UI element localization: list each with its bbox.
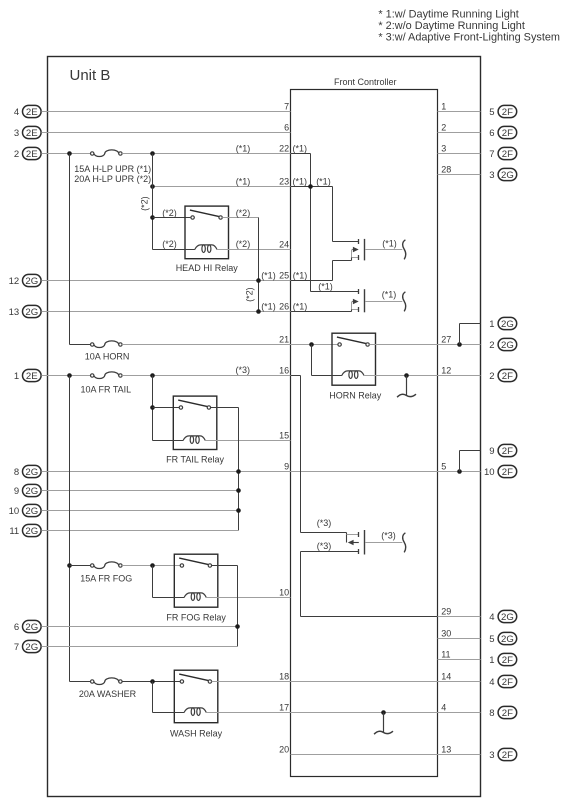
Front Controller title: [334, 77, 397, 87]
pin 10 label: [279, 588, 289, 598]
svg-text:2F: 2F: [502, 446, 513, 457]
svg-text:27: 27: [441, 335, 451, 345]
label (*3) pin16: [236, 365, 251, 375]
svg-text:5: 5: [441, 462, 446, 472]
wire pin23 from junction: [153, 186, 291, 188]
pin 22 label: [279, 144, 289, 154]
wire FR TAIL switch output stub: [211, 407, 239, 409]
wire vertical pin23 to mosfet1 drain: [332, 187, 334, 242]
relay HEAD HI coil: [195, 245, 217, 253]
Front Controller box: [291, 90, 438, 777]
svg-text:2G: 2G: [25, 506, 38, 517]
svg-text:22: 22: [279, 144, 289, 154]
svg-text:10A HORN: 10A HORN: [85, 352, 130, 362]
squiggle harness mosfet2: [403, 292, 406, 312]
svg-text:(*3): (*3): [317, 518, 332, 528]
wire vertical WASH coil feed: [152, 682, 154, 713]
wire 7 2G to FR FOG out: [41, 646, 238, 648]
svg-text:* 3:w/ Adaptive Front-Lighting: * 3:w/ Adaptive Front-Lighting System: [378, 32, 560, 44]
transistor Q1 mosfet (*1): [352, 239, 365, 261]
wire 11 2G to FR TAIL out: [41, 530, 239, 532]
wire HEAD HI switch input stub: [153, 217, 191, 219]
wire vertical FR TAIL out down: [238, 408, 240, 531]
connector 4 2E: [14, 105, 41, 118]
svg-text:5: 5: [489, 634, 494, 645]
connector 9 2F: [489, 444, 516, 457]
pin 16 label: [279, 366, 289, 376]
pin 15 label: [279, 431, 289, 441]
wire vertical HEAD HI out down: [258, 218, 260, 312]
pin 20 label: [279, 745, 289, 755]
svg-text:1: 1: [489, 655, 494, 666]
node pin23 branch junction: [150, 184, 155, 189]
pin 27 label: [441, 335, 451, 345]
connector 12 2G: [9, 274, 41, 287]
wire mosfet2 output: [365, 301, 402, 303]
connector 6 2G: [14, 620, 41, 633]
svg-text:6: 6: [14, 622, 19, 633]
label (*1) mosfet2 out: [382, 290, 397, 300]
svg-text:9: 9: [284, 462, 289, 472]
wire HEAD HI coil to pin 24: [217, 249, 290, 251]
svg-text:Front Controller: Front Controller: [334, 77, 397, 87]
svg-text:(*2): (*2): [236, 239, 251, 249]
svg-text:9: 9: [489, 446, 494, 457]
relay HORN label: [329, 390, 382, 400]
fuse 10A HORN: [91, 341, 123, 348]
wire pin1 to 5 2F: [438, 111, 481, 113]
wire WASHER corner stub: [70, 681, 91, 683]
connector 10 2G: [9, 504, 41, 517]
squiggle harness mosfet1: [403, 240, 406, 260]
svg-text:1: 1: [489, 319, 494, 330]
wire HORN coil input stub: [312, 375, 342, 377]
svg-text:5: 5: [489, 107, 494, 118]
wire pin28 to 3 2G: [438, 174, 481, 176]
node 1 2E feed junction: [67, 373, 72, 378]
squiggle harness mosfet3: [403, 533, 406, 553]
wire pin11 to 1 2F: [438, 659, 481, 661]
wire vertical HORN coil feed: [311, 345, 313, 376]
wire mosfet3 output: [365, 542, 402, 544]
svg-text:2G: 2G: [501, 319, 514, 330]
connector 1 2F: [489, 653, 516, 666]
node FR TAIL out tie 9 2G: [236, 488, 241, 493]
wire vertical H-LP feed to HEAD HI: [152, 154, 154, 250]
svg-text:2G: 2G: [501, 340, 514, 351]
wire 12 2G to pin 25: [41, 280, 290, 282]
wire vertical FR FOG coil feed: [152, 566, 154, 598]
label (*1) pin23 inside A: [293, 177, 308, 187]
svg-text:30: 30: [441, 629, 451, 639]
svg-text:12: 12: [441, 366, 451, 376]
connector 2 2G: [489, 338, 516, 351]
label (*2) HEAD HI upper-left: [162, 208, 177, 218]
wire FR FOG coil input stub: [153, 597, 185, 599]
svg-text:(*1): (*1): [261, 302, 276, 312]
pin 3 label: [441, 144, 446, 154]
connector 10 2F: [484, 465, 517, 478]
svg-text:2G: 2G: [25, 622, 38, 633]
wire vertical 1 2E feed down: [69, 376, 71, 682]
svg-text:2: 2: [489, 371, 494, 382]
relay HEAD HI box: [185, 206, 229, 259]
svg-text:(*3): (*3): [381, 531, 396, 541]
wire mosfet3 top lead: [301, 532, 347, 534]
svg-text:HEAD HI Relay: HEAD HI Relay: [176, 263, 239, 273]
label (*3) mosfet3 bottom: [317, 541, 332, 551]
svg-text:14: 14: [441, 672, 451, 682]
wire FR TAIL coil input stub: [153, 440, 184, 442]
relay FR TAIL box: [173, 396, 217, 449]
svg-text:9: 9: [14, 486, 19, 497]
pin 1 label: [441, 102, 446, 112]
label (*3) mosfet3 out: [381, 531, 396, 541]
svg-text:20A WASHER: 20A WASHER: [79, 689, 137, 699]
svg-text:8: 8: [489, 708, 494, 719]
svg-text:3: 3: [441, 144, 446, 154]
node FR TAIL out tie 10 2G: [236, 508, 241, 513]
svg-text:15: 15: [279, 431, 289, 441]
pin 9 label: [284, 462, 289, 472]
svg-text:(*1): (*1): [293, 271, 308, 281]
connector 8 2G: [14, 465, 41, 478]
pin 23 label: [279, 177, 289, 187]
relay FR FOG label: [166, 613, 226, 623]
ground HORN relay: [397, 376, 416, 398]
wire WASH coil through pin17 pin4 to 8 2F: [206, 712, 480, 714]
wire mosfet2 gate lead: [311, 289, 359, 294]
wire 6 2G to FR FOG out: [41, 626, 237, 628]
wire fuse to pin 22: [122, 153, 290, 155]
svg-text:(*1): (*1): [316, 177, 331, 187]
svg-text:2F: 2F: [502, 750, 513, 761]
pin 5 label: [441, 462, 446, 472]
label (*1) pin25 outside: [261, 271, 276, 281]
transistor Q3 mosfet (*3): [347, 530, 365, 555]
pin 29 label: [441, 606, 451, 616]
wire pin3 to 7 2F: [438, 153, 481, 155]
wire mosfet1 drain lead: [333, 239, 359, 244]
svg-text:(*3): (*3): [317, 541, 332, 551]
svg-text:2E: 2E: [26, 107, 38, 118]
wire pin2 to 6 2F: [438, 132, 481, 134]
wire bracket to 9 2F: [460, 451, 481, 472]
connector 11 2G: [9, 524, 41, 537]
svg-text:28: 28: [441, 165, 451, 175]
wire 8 2G through pin9 pin5 to 10 2F: [41, 471, 480, 473]
svg-text:2G: 2G: [501, 170, 514, 181]
svg-text:2G: 2G: [501, 612, 514, 623]
node HEAD HI switch branch: [150, 215, 155, 220]
node 10 2F bracket tie: [457, 469, 462, 474]
svg-text:(*1): (*1): [293, 177, 308, 187]
relay FR FOG box: [174, 554, 218, 607]
wire pin25 inside stub: [291, 280, 333, 282]
wire mosfet1 output: [365, 249, 402, 251]
connector 4 2G: [489, 610, 516, 623]
svg-text:2G: 2G: [25, 276, 38, 287]
wire pin29 to 4 2G: [438, 616, 481, 618]
svg-text:2F: 2F: [502, 107, 513, 118]
svg-text:2G: 2G: [25, 526, 38, 537]
wire vertical 2E feed to HORN fuse: [69, 154, 71, 345]
svg-text:23: 23: [279, 177, 289, 187]
svg-text:29: 29: [441, 606, 451, 616]
svg-text:4: 4: [441, 703, 446, 713]
svg-text:6: 6: [284, 123, 289, 133]
svg-text:7: 7: [14, 642, 19, 653]
svg-text:(*1): (*1): [293, 144, 308, 154]
relay HORN switch: [337, 337, 369, 346]
svg-text:(*2): (*2): [162, 239, 177, 249]
connector 3 2G: [489, 168, 516, 181]
svg-text:3: 3: [489, 170, 494, 181]
svg-text:(*2): (*2): [162, 208, 177, 218]
label (*1) pin26 inside: [293, 302, 308, 312]
svg-text:2: 2: [441, 123, 446, 133]
svg-text:21: 21: [279, 335, 289, 345]
label (*1) mosfet1 out: [382, 239, 397, 249]
pin 25 label: [279, 271, 289, 281]
node pin25 tie: [256, 278, 261, 283]
wire vertical FR FOG out down: [237, 566, 239, 647]
wire HORN coil to 2 2F: [364, 375, 480, 377]
fuse 15A/20A H-LP UPR: [91, 150, 123, 157]
svg-text:3: 3: [489, 750, 494, 761]
wire 10 2G to FR TAIL out: [41, 510, 238, 512]
connector 3 2E: [14, 126, 41, 138]
node pin22/pin23 tie junction: [308, 184, 313, 189]
label (*1) pin22 inside: [293, 144, 308, 154]
svg-text:1: 1: [441, 102, 446, 112]
wire 3 2E to pin 6: [41, 132, 290, 134]
pin 11 label: [441, 650, 450, 660]
node pin26 tie: [256, 309, 261, 314]
node 2G bracket tie: [457, 342, 462, 347]
label (*1) pin23 inside B: [316, 177, 331, 187]
wire HORN switch output to 2 2G: [369, 344, 480, 346]
fuse 15A FR FOG label: [80, 573, 132, 583]
pin 17 label: [279, 703, 289, 713]
svg-text:3: 3: [14, 128, 19, 139]
svg-text:15A FR FOG: 15A FR FOG: [80, 573, 132, 583]
svg-text:20A H-LP UPR (*2): 20A H-LP UPR (*2): [74, 174, 151, 184]
pin 14 label: [441, 672, 451, 682]
relay WASH coil: [184, 708, 206, 716]
connector 8 2F: [489, 706, 516, 719]
wire vertical FR TAIL feed: [152, 376, 154, 441]
svg-text:2F: 2F: [502, 467, 513, 478]
svg-text:24: 24: [279, 240, 289, 250]
fuse 10A FR TAIL: [91, 372, 123, 379]
relay WASH switch: [179, 674, 211, 683]
connector 3 2F: [489, 748, 516, 761]
Unit B enclosure box: [48, 57, 481, 797]
label (*1) pin23 outside: [236, 177, 251, 187]
wire mosfet3 bottom lead: [301, 549, 359, 554]
label (*2) HEAD HI upper-right: [236, 208, 251, 218]
node HORN ground tie: [404, 373, 409, 378]
wire vertical mosfet3 to pin 29: [300, 552, 302, 617]
connector 9 2G: [14, 484, 41, 497]
wire pin22 inside stub: [291, 153, 311, 155]
svg-text:2F: 2F: [502, 655, 513, 666]
fuse 15A FR FOG: [91, 562, 123, 569]
svg-text:(*2): (*2): [236, 208, 251, 218]
svg-text:10A FR TAIL: 10A FR TAIL: [81, 385, 132, 395]
wire vertical pin16 down to mosfet3: [300, 376, 302, 533]
connector 2 2E: [14, 147, 41, 160]
node FR FOG fuse output junction: [150, 563, 155, 568]
wire vertical pin22 to mosfet2: [310, 154, 312, 292]
pin 4 label: [441, 703, 446, 713]
pin 18 label: [279, 672, 289, 682]
svg-text:2F: 2F: [502, 677, 513, 688]
label (*2) HEAD HI lower-right: [236, 239, 251, 249]
svg-text:(*1): (*1): [382, 290, 397, 300]
wire bracket to 1 2G: [460, 324, 481, 345]
svg-text:15A H-LP UPR (*1): 15A H-LP UPR (*1): [74, 164, 151, 174]
connector 13 2G: [9, 305, 41, 318]
connector 4 2F: [489, 675, 516, 688]
svg-text:WASH Relay: WASH Relay: [170, 729, 223, 739]
svg-text:17: 17: [279, 703, 289, 713]
svg-text:* 2:w/o Daytime Running Light: * 2:w/o Daytime Running Light: [378, 20, 525, 32]
svg-text:26: 26: [279, 302, 289, 312]
svg-text:FR TAIL Relay: FR TAIL Relay: [166, 454, 224, 464]
relay FR TAIL switch: [178, 400, 210, 409]
label (*2) HEAD HI lower-left: [162, 239, 177, 249]
wire 2 2E to fuse: [41, 153, 90, 155]
connector 2 2F: [489, 369, 516, 382]
svg-text:(*1): (*1): [318, 282, 333, 292]
wire fuse to pin 16: [122, 375, 290, 377]
svg-text:18: 18: [279, 672, 289, 682]
label (*3) mosfet3 top: [317, 518, 332, 528]
svg-text:13: 13: [9, 307, 20, 318]
label (*1) pin25 inside: [293, 271, 308, 281]
wire pin20 through pin13 to 3 2F: [291, 754, 481, 756]
node HORN coil branch: [309, 342, 314, 347]
fuse H-LP UPR value labels: [74, 164, 151, 184]
connector 7 2F: [489, 147, 516, 160]
relay FR TAIL label: [166, 454, 224, 464]
connector 1 2E: [14, 369, 41, 382]
svg-text:2F: 2F: [502, 708, 513, 719]
relay FR FOG switch: [179, 558, 211, 567]
wire pin26 inside to mosfet2 source: [291, 310, 352, 312]
node WASH fuse output junction: [150, 679, 155, 684]
svg-text:4: 4: [489, 677, 494, 688]
svg-text:2F: 2F: [502, 371, 513, 382]
node H-LP fuse output junction: [150, 151, 155, 156]
svg-text:2E: 2E: [26, 128, 38, 139]
wire mosfet1 source lead: [333, 258, 352, 261]
svg-text:6: 6: [489, 128, 494, 139]
relay WASH label: [170, 729, 223, 739]
legend note *1: [378, 8, 518, 20]
svg-text:(*2): (*2): [245, 287, 255, 302]
pin 28 label: [441, 165, 451, 175]
svg-text:11: 11: [9, 526, 19, 537]
svg-text:12: 12: [9, 276, 20, 287]
svg-text:11: 11: [441, 650, 450, 660]
svg-text:(*1): (*1): [236, 177, 251, 187]
wire pin23 inside stub: [291, 186, 333, 188]
relay WASH box: [174, 670, 218, 723]
svg-text:HORN Relay: HORN Relay: [329, 390, 382, 400]
label (*1) mosfet2 lead: [318, 282, 333, 292]
svg-text:4: 4: [489, 612, 494, 623]
wire HEAD HI coil input stub: [153, 249, 195, 251]
svg-text:10: 10: [484, 467, 495, 478]
svg-text:(*1): (*1): [293, 302, 308, 312]
node FR TAIL out tie pin9: [236, 469, 241, 474]
wire 4 2E to pin 7: [41, 111, 290, 113]
svg-text:7: 7: [489, 149, 494, 160]
label (*1) pin22 outside: [236, 144, 251, 154]
wire fuse to FR FOG relay: [122, 565, 180, 567]
connector 6 2F: [489, 126, 516, 138]
connector 1 2G: [489, 317, 516, 330]
wire FR FOG coil to pin 10: [206, 597, 290, 599]
svg-text:(*1): (*1): [382, 239, 397, 249]
pin 7 label: [284, 102, 289, 112]
pin 24 label: [279, 240, 289, 250]
svg-text:13: 13: [441, 745, 451, 755]
wire HORN corner stub: [70, 344, 91, 346]
node ground tie pin4 row: [381, 710, 386, 715]
wire HEAD HI switch output stub: [222, 217, 258, 219]
svg-text:2G: 2G: [25, 642, 38, 653]
svg-text:2: 2: [489, 340, 494, 351]
wire FR FOG switch output stub: [212, 565, 238, 567]
wire fuse to WASH relay: [122, 681, 180, 683]
wire pin16 inside stub: [291, 375, 301, 377]
svg-text:FR FOG Relay: FR FOG Relay: [166, 613, 226, 623]
wire FR TAIL coil to pin 15: [205, 440, 290, 442]
relay HORN coil: [342, 371, 364, 379]
svg-text:(*3): (*3): [236, 365, 251, 375]
wire pin29 inside: [301, 616, 438, 618]
transistor Q2 mosfet (*1): [352, 289, 365, 312]
node FR TAIL switch branch: [150, 405, 155, 410]
svg-text:(*1): (*1): [261, 271, 276, 281]
svg-text:2: 2: [14, 149, 19, 160]
pin 13 label: [441, 745, 451, 755]
svg-text:(*2): (*2): [139, 196, 149, 211]
legend note *3: [378, 32, 560, 44]
wire fuse to HORN relay: [122, 344, 338, 346]
svg-text:2E: 2E: [26, 371, 38, 382]
svg-text:2G: 2G: [25, 486, 38, 497]
pin 2 label: [441, 123, 446, 133]
connector 5 2G: [489, 632, 516, 645]
label (*2) rotated feed: [139, 196, 149, 211]
node FR FOG feed junction: [67, 563, 72, 568]
svg-text:2G: 2G: [501, 634, 514, 645]
svg-text:2F: 2F: [502, 128, 513, 139]
pin 30 label: [441, 629, 451, 639]
svg-text:16: 16: [279, 366, 289, 376]
fuse 10A HORN label: [85, 352, 130, 362]
relay HORN box: [332, 333, 376, 385]
connector 7 2G: [14, 640, 41, 653]
svg-text:20: 20: [279, 745, 289, 755]
wire WASH coil input stub: [153, 712, 185, 714]
wire WASH switch through pin18 pin14 to 4 2F: [212, 681, 481, 683]
